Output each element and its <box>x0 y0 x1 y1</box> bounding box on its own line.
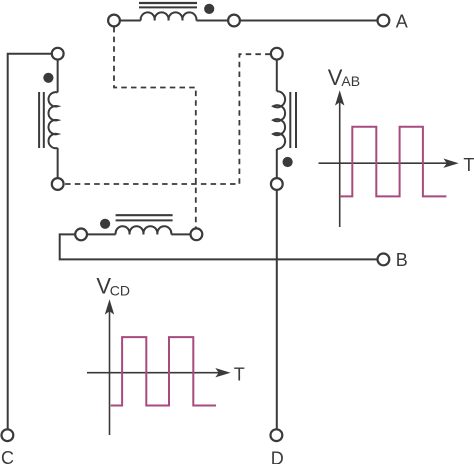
terminal: W2 bottom (open circle) <box>52 178 64 190</box>
svg-text:T: T <box>463 155 474 175</box>
wire (dashed): winding W1 left terminal down, right, down to winding W4 right terminal <box>114 27 196 228</box>
terminal A (open circle) <box>378 15 390 27</box>
core of W2 (two bars) <box>38 92 40 148</box>
core of W1 (two bars) <box>139 2 197 4</box>
wire: W4 right lead <box>171 233 190 235</box>
svg-text:T: T <box>234 365 245 385</box>
transformer winding W2 (left, vertical) <box>39 48 64 190</box>
terminal: W3 top (open circle) <box>271 48 283 60</box>
terminal: W1 left (open circle) <box>108 15 120 27</box>
wire: W3 top lead <box>276 59 278 91</box>
transformer winding W4 (bottom, horizontal) <box>75 215 202 240</box>
core of W3 (two bars) <box>289 92 291 148</box>
polarity dot of W1 <box>204 4 214 14</box>
curve: V_CD square wave <box>111 337 216 405</box>
winding W3 coil <box>273 91 285 149</box>
curve: V_AB square wave <box>340 127 447 197</box>
winding W1 coil <box>141 12 197 20</box>
polarity dot of W3 <box>283 157 293 167</box>
wire: from winding W4 left terminal left, down, right to terminal B <box>60 234 378 259</box>
svg-text:CD: CD <box>110 283 130 299</box>
graph V_AB: vertical axis <box>335 90 344 227</box>
transformer winding W1 (top, horizontal) <box>108 3 240 26</box>
wire: top rail from winding W1 right terminal to terminal A <box>240 20 378 22</box>
svg-text:D: D <box>271 449 284 464</box>
wire: W1 right lead <box>196 20 228 22</box>
svg-text:B: B <box>396 250 408 270</box>
wire: W3 bottom lead <box>276 149 278 178</box>
label V_AB <box>328 65 360 90</box>
terminal: W4 left (open circle) <box>75 229 87 241</box>
terminal D (open circle) <box>271 429 283 441</box>
terminal: W3 bottom (open circle) <box>271 178 283 190</box>
terminal: W2 top (open circle) <box>52 48 64 60</box>
terminal C (open circle) <box>2 429 14 441</box>
graph V_AB: horizontal axis with T label <box>319 155 474 175</box>
terminal: W1 right (open circle) <box>228 15 240 27</box>
svg-text:AB: AB <box>341 73 360 89</box>
label V_CD <box>96 274 130 299</box>
polarity dot of W4 <box>100 219 110 229</box>
winding W2 coil <box>48 92 57 148</box>
polarity dot of W2 <box>43 73 53 83</box>
terminal B (open circle) <box>378 254 390 266</box>
core of W4 (two bars) <box>116 214 173 216</box>
svg-text:A: A <box>396 11 408 31</box>
winding W4 coil <box>116 226 172 234</box>
graph V_CD: vertical axis <box>105 299 114 435</box>
wire (dashed): winding W3 top terminal left, down, left to winding W2 bottom terminal <box>64 54 270 184</box>
wire: right rail from winding W3 bottom terminal down to terminal D <box>276 190 278 429</box>
terminal: W4 right (open circle) <box>191 228 203 240</box>
wire: W2 top lead <box>57 59 59 92</box>
wire: W2 bottom lead <box>57 148 59 178</box>
wire: W1 left lead <box>120 20 141 22</box>
svg-text:C: C <box>1 448 14 464</box>
wire: W4 left lead <box>87 233 116 235</box>
graph V_CD: horizontal axis with T label <box>87 365 245 385</box>
wire: left rail (corner at top-left down to terminal C) <box>8 54 52 430</box>
transformer winding W3 (right, vertical) <box>271 48 296 190</box>
